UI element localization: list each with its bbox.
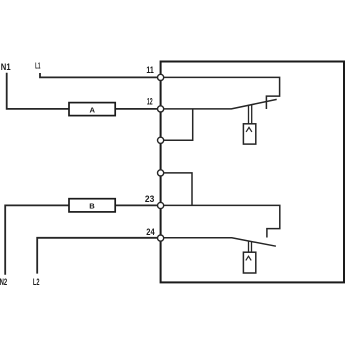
svg-text:N1: N1 [1,62,11,72]
wire L2 to terminal 24 [37,238,160,274]
wire coil B to terminal 23 [115,204,160,206]
svg-text:23: 23 [145,194,154,204]
contact blade 12 (closed) [161,99,277,109]
wire node 11 internal [161,77,280,109]
terminal 24 [158,235,164,241]
wire L1 to terminal 11 [40,73,161,77]
terminal mid upper [158,137,164,143]
terminal 11 [158,74,164,80]
actuator link contact 2 [249,241,252,253]
coil B [69,199,115,212]
chevron 2 [246,256,251,260]
svg-text:L2: L2 [33,277,40,287]
chevron 1 [246,127,252,131]
svg-text:L1: L1 [35,62,41,71]
coil A [69,103,115,116]
actuator link contact 1 [249,105,252,125]
device outline U1 [161,62,344,283]
svg-text:A: A [89,106,95,115]
terminal mid lower [158,170,164,176]
svg-text:11: 11 [146,65,153,75]
wire node 23 internal [161,205,280,237]
wire N1 down to coil A [7,73,69,109]
wire N2 up to coil B [5,205,69,274]
latch mechanism box 1 [243,124,255,144]
wire coil A to terminal 12 [115,108,160,110]
wire 12 loop to lower terminal [161,109,193,140]
wire loop to terminal 23 [161,173,192,206]
svg-text:12: 12 [147,96,153,106]
svg-text:B: B [89,201,95,210]
svg-text:24: 24 [146,227,154,237]
terminal 12 [158,106,164,112]
terminal 23 [158,202,164,208]
contact blade 24 (open) [161,238,276,246]
svg-text:N2: N2 [0,277,7,287]
latch mechanism box 2 [243,252,255,273]
